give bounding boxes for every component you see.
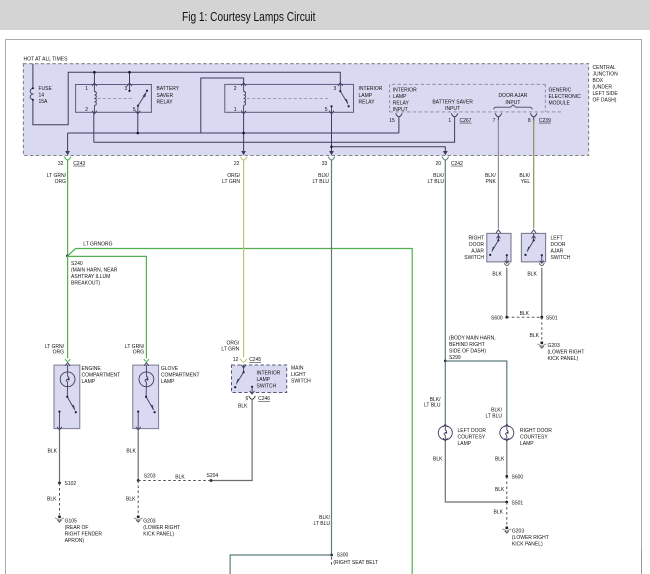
GEM pin 1 / C267	[451, 113, 458, 116]
svg-text:APRON): APRON)	[65, 538, 85, 544]
wire drop to battery saver relay pin 3	[129, 72, 131, 84]
svg-text:LT BLU: LT BLU	[313, 179, 330, 185]
svg-text:KICK PANEL): KICK PANEL)	[548, 356, 579, 362]
interior lamp relay pin 3 stub	[338, 83, 343, 86]
svg-text:C267: C267	[460, 118, 472, 124]
wire interior relay pin 5 to connector 33	[331, 112, 333, 151]
svg-text:ORG: ORG	[55, 179, 67, 185]
central junction box (dashed outline)	[23, 64, 588, 156]
svg-text:BREAKOUT): BREAKOUT)	[71, 281, 101, 287]
battery saver relay box	[76, 85, 152, 113]
svg-text:CENTRAL: CENTRAL	[593, 65, 617, 71]
svg-text:BLK: BLK	[495, 456, 505, 462]
splice S203	[137, 479, 140, 482]
svg-text:LEFT: LEFT	[551, 236, 563, 242]
wire line1 drop to connector 32	[67, 133, 69, 151]
wire BLK/YEL GEM pin8 to left door ajar switch	[533, 120, 535, 229]
svg-text:RELAY: RELAY	[359, 100, 376, 106]
interior lamp relay coil pin2-pin1	[241, 83, 246, 86]
svg-text:BLK: BLK	[175, 474, 185, 480]
svg-text:SWITCH: SWITCH	[291, 379, 311, 385]
svg-text:COMPARTMENT: COMPARTMENT	[161, 372, 200, 378]
connector 32 / C243	[65, 151, 70, 155]
wire S299 to left courtesy lamp	[444, 361, 446, 425]
svg-text:ASHTRAY ILLUM: ASHTRAY ILLUM	[71, 274, 110, 280]
wire S501 to G203 (dashed)	[541, 317, 543, 340]
svg-text:ORG: ORG	[133, 350, 145, 356]
svg-text:OF DASH): OF DASH)	[593, 98, 617, 104]
ground G105	[58, 516, 61, 519]
svg-text:(BODY MAIN HARN,: (BODY MAIN HARN,	[449, 335, 496, 341]
svg-text:GENERIC: GENERIC	[549, 87, 572, 93]
svg-text:LT GRN: LT GRN	[222, 179, 240, 185]
svg-text:S300: S300	[337, 553, 349, 559]
svg-text:LEFT DOOR: LEFT DOOR	[458, 428, 487, 434]
wire S300 stub (dashed)	[331, 557, 333, 566]
fuse 14 15A wire loop	[32, 64, 34, 88]
junction at fuse bus pin1 drop	[93, 71, 96, 74]
wire BLK/LT BLU conn33 to S300	[331, 160, 333, 555]
svg-text:LAMP: LAMP	[161, 379, 175, 385]
svg-text:KICK PANEL): KICK PANEL)	[143, 531, 174, 537]
svg-text:JUNCTION: JUNCTION	[593, 72, 619, 78]
wire S102 to G105 (dashed)	[59, 483, 61, 515]
title bar	[0, 0, 650, 30]
svg-text:BLK: BLK	[433, 456, 443, 462]
svg-text:G105: G105	[65, 518, 77, 524]
svg-text:LT GRNORG: LT GRNORG	[83, 241, 112, 247]
splice S600 (courtesy)	[505, 475, 508, 478]
svg-text:BATTERY: BATTERY	[157, 86, 180, 92]
ground G203 (courtesy)	[506, 527, 509, 530]
svg-text:LEFT SIDE: LEFT SIDE	[593, 91, 619, 97]
svg-text:SIDE OF DASH): SIDE OF DASH)	[449, 348, 486, 354]
svg-text:YEL: YEL	[521, 179, 531, 185]
svg-text:LT BLU: LT BLU	[314, 521, 331, 527]
svg-text:BLK: BLK	[48, 448, 58, 454]
junction at fuse bus pin3 drop	[128, 71, 131, 74]
svg-text:GLOVE: GLOVE	[161, 366, 179, 372]
svg-text:RELAY: RELAY	[393, 100, 410, 106]
svg-text:DOOR: DOOR	[551, 242, 566, 248]
svg-text:15: 15	[389, 118, 395, 124]
svg-text:INPUT: INPUT	[445, 106, 460, 112]
wire S600 to S501 (dashed)	[507, 316, 542, 318]
svg-text:BLK: BLK	[492, 271, 502, 277]
connector C245	[240, 359, 247, 362]
svg-text:SAVER: SAVER	[157, 93, 174, 99]
svg-text:(LOWER RIGHT: (LOWER RIGHT	[548, 350, 585, 356]
wire BLK main light switch to S204	[211, 400, 252, 481]
svg-text:2: 2	[85, 107, 88, 113]
wire S240 to glove lamp	[68, 256, 147, 358]
GEM dashed outline right	[544, 84, 546, 112]
interior lamp relay switch arm pin3-pin5	[340, 91, 347, 103]
wire BLK/PNK GEM pin7 to right door ajar switch	[497, 120, 499, 229]
lamp left door courtesy	[443, 424, 447, 427]
svg-text:HOT AT ALL TIMES: HOT AT ALL TIMES	[24, 57, 69, 63]
svg-text:12: 12	[233, 357, 239, 363]
svg-text:COMPARTMENT: COMPARTMENT	[82, 372, 121, 378]
svg-text:INTERIOR: INTERIOR	[257, 370, 281, 376]
svg-text:G203: G203	[143, 518, 155, 524]
wire interior relay pin 1 to connector 22	[243, 112, 245, 151]
interior lamp relay mechanical link (dashed)	[247, 97, 330, 99]
svg-text:3: 3	[334, 86, 337, 92]
switch left door ajar	[521, 233, 545, 262]
svg-text:1: 1	[85, 86, 88, 92]
splice S600 (door ajar)	[505, 316, 508, 319]
svg-text:3: 3	[125, 86, 128, 92]
svg-text:S501: S501	[546, 315, 558, 321]
svg-text:BLK: BLK	[495, 487, 505, 493]
splice S204	[210, 479, 213, 482]
svg-text:LAMP: LAMP	[82, 379, 96, 385]
splice S240	[66, 255, 69, 258]
svg-text:BEHIND RIGHT: BEHIND RIGHT	[449, 342, 485, 348]
lamp right door courtesy	[505, 424, 509, 427]
ground G203 (door ajar)	[541, 342, 544, 345]
svg-text:RIGHT: RIGHT	[468, 236, 484, 242]
svg-text:S501: S501	[512, 500, 524, 506]
svg-text:SWITCH: SWITCH	[551, 255, 571, 261]
svg-text:LAMP: LAMP	[520, 441, 534, 447]
svg-text:LT GRN: LT GRN	[221, 346, 239, 352]
svg-text:32: 32	[58, 161, 64, 167]
wire S300 west branch	[230, 555, 331, 574]
svg-text:(REAR OF: (REAR OF	[65, 525, 89, 531]
svg-text:AJAR: AJAR	[551, 249, 564, 255]
GEM pin 7	[495, 113, 502, 116]
net bus lineC to connector 20	[332, 147, 446, 152]
connector C246	[249, 396, 256, 399]
svg-text:7: 7	[493, 118, 496, 124]
svg-text:G203: G203	[512, 529, 524, 535]
svg-text:BATTERY SAVER: BATTERY SAVER	[432, 99, 473, 105]
ground G203 (left)	[137, 516, 140, 519]
svg-text:G203: G203	[548, 343, 560, 349]
svg-text:COURTESY: COURTESY	[520, 434, 548, 440]
svg-text:1: 1	[448, 118, 451, 124]
net bus line1 (batt saver pin5 output)	[68, 132, 399, 134]
svg-text:C243: C243	[73, 161, 85, 167]
svg-text:LT BLU: LT BLU	[424, 403, 441, 409]
battery saver relay mechanical link (dashed)	[98, 97, 135, 99]
wire LT GRN/ORG conn32 to S240	[67, 160, 69, 256]
svg-text:C246: C246	[258, 396, 270, 402]
svg-text:LAMP: LAMP	[458, 441, 472, 447]
svg-text:(LOWER RIGHT: (LOWER RIGHT	[512, 535, 549, 541]
svg-text:BLK: BLK	[126, 448, 136, 454]
splice S300	[330, 554, 333, 557]
wire battery saver pin 2 down	[93, 112, 95, 142]
junction pin5/line1	[137, 132, 140, 135]
svg-text:BOX: BOX	[593, 78, 604, 84]
svg-text:BLK: BLK	[494, 510, 504, 516]
GEM dashed outline left	[389, 85, 391, 112]
svg-text:S203: S203	[144, 474, 156, 480]
wire BLK glove lamp to S203	[137, 430, 139, 481]
svg-text:FUSE: FUSE	[39, 86, 53, 92]
connector 33	[329, 151, 334, 155]
svg-text:INTERIOR: INTERIOR	[359, 86, 383, 92]
connector 20 / C242	[443, 151, 448, 155]
svg-text:MAIN: MAIN	[291, 366, 304, 372]
svg-text:LT BLU: LT BLU	[486, 413, 503, 419]
svg-text:14: 14	[39, 93, 45, 99]
wire S299 to right courtesy lamp	[445, 361, 507, 425]
wire BLK right door switch to S600	[506, 268, 508, 318]
svg-text:S600: S600	[491, 315, 503, 321]
scrollbar edge	[641, 548, 643, 574]
splice S102	[58, 482, 61, 485]
svg-text:LAMP: LAMP	[257, 377, 271, 383]
svg-text:5: 5	[325, 107, 328, 113]
svg-text:BLK: BLK	[238, 403, 248, 409]
svg-text:ENGINE: ENGINE	[82, 366, 102, 372]
lamp engine compartment	[54, 365, 80, 429]
svg-text:RELAY: RELAY	[157, 100, 174, 106]
door ajar input bracket	[494, 105, 533, 110]
svg-text:S204: S204	[207, 473, 219, 479]
svg-text:S600: S600	[512, 475, 524, 481]
svg-text:S102: S102	[65, 481, 77, 487]
svg-text:MODULE: MODULE	[549, 100, 571, 106]
wire line1 to GEM pin 15	[398, 117, 400, 133]
wire ORG/LT GRN conn22 to main light switch	[243, 160, 245, 357]
svg-text:COURTESY: COURTESY	[458, 434, 486, 440]
battery saver relay pin 5 stub	[137, 106, 139, 113]
splice S299	[444, 360, 447, 363]
svg-text:SWITCH: SWITCH	[257, 383, 277, 389]
svg-text:LAMP: LAMP	[393, 94, 407, 100]
svg-text:C242: C242	[451, 161, 463, 167]
svg-text:LAMP: LAMP	[359, 93, 373, 99]
svg-text:AJAR: AJAR	[471, 249, 484, 255]
splice S501 (door ajar)	[540, 316, 543, 319]
svg-text:BLK: BLK	[47, 497, 57, 503]
wire S600 to S501 (courtesy, dashed)	[506, 476, 508, 502]
svg-text:15A: 15A	[39, 99, 49, 105]
wire LT GRNORG jog to long feed	[68, 249, 413, 574]
svg-text:SWITCH: SWITCH	[464, 255, 484, 261]
wire pin2-feed riser and feed to interior relay pin 2	[201, 78, 244, 133]
svg-text:22: 22	[234, 161, 240, 167]
switch right door ajar	[487, 233, 511, 262]
svg-text:1: 1	[234, 107, 237, 113]
wire BLK engine lamp to S102	[59, 430, 61, 483]
GEM pin 8 / C239	[530, 113, 537, 116]
junction pin5/lineC	[330, 146, 333, 149]
svg-text:KICK PANEL): KICK PANEL)	[512, 542, 543, 548]
svg-text:C245: C245	[249, 357, 261, 363]
svg-text:BLK: BLK	[530, 333, 540, 339]
main light switch box (dashed)	[232, 365, 287, 393]
interior lamp relay pin 5 stub	[331, 106, 333, 112]
svg-text:S240: S240	[71, 261, 83, 267]
svg-text:DOOR AJAR: DOOR AJAR	[498, 93, 527, 99]
svg-text:DOOR: DOOR	[469, 242, 484, 248]
svg-text:BLK: BLK	[126, 497, 136, 503]
svg-text:2: 2	[234, 86, 237, 92]
lamp glove compartment	[133, 365, 159, 429]
wire S203 to S204 (dashed)	[138, 480, 211, 482]
wire BLK/LT BLU conn20 to S299	[444, 160, 446, 361]
svg-text:(MAIN HARN, NEAR: (MAIN HARN, NEAR	[71, 268, 118, 274]
svg-text:8: 8	[528, 118, 531, 124]
GEM pin 15	[396, 113, 403, 116]
svg-text:BLK: BLK	[527, 271, 537, 277]
battery saver relay switch arm pin5-pin3	[137, 105, 139, 107]
battery saver relay coil pin1-pin2	[92, 83, 97, 86]
svg-text:RIGHT DOOR: RIGHT DOOR	[520, 428, 552, 434]
svg-text:LIGHT: LIGHT	[291, 372, 306, 378]
svg-text:(UNDER: (UNDER	[593, 85, 613, 91]
GEM dashed outline bottom	[390, 111, 561, 113]
wire battery saver pin 5 to line1	[137, 112, 139, 133]
wire drop to battery saver relay pin 1	[93, 72, 95, 84]
svg-text:S299: S299	[449, 355, 461, 361]
svg-text:(LOWER RIGHT: (LOWER RIGHT	[143, 525, 180, 531]
svg-text:C239: C239	[539, 118, 551, 124]
junction pin1/line1	[242, 132, 245, 135]
svg-text:5: 5	[133, 107, 136, 113]
net bus line2 (batt saver pin2 to GEM C267)	[94, 117, 455, 142]
svg-text:INPUT: INPUT	[393, 107, 408, 113]
splice S501 (courtesy)	[505, 501, 508, 504]
wire BLK left courtesy lamp to S501	[445, 441, 507, 502]
svg-text:INTERIOR: INTERIOR	[393, 87, 417, 93]
svg-text:Fig 1: Courtesy Lamps Circuit: Fig 1: Courtesy Lamps Circuit	[182, 10, 316, 24]
svg-text:RIGHT FENDER: RIGHT FENDER	[65, 531, 103, 537]
wire BLK right courtesy lamp to S600	[506, 441, 508, 476]
connector 22	[241, 151, 246, 155]
svg-text:LT BLU: LT BLU	[428, 179, 445, 185]
svg-text:(RIGHT SEAT BELT: (RIGHT SEAT BELT	[333, 560, 378, 566]
svg-text:6: 6	[246, 396, 249, 402]
wire BLK left door switch to S501	[541, 268, 543, 318]
GEM dashed outline top	[392, 83, 546, 85]
svg-text:BLK: BLK	[520, 311, 530, 317]
battery saver relay pin 3 stub	[127, 83, 132, 86]
svg-text:20: 20	[436, 161, 442, 167]
svg-text:ORG: ORG	[53, 350, 65, 356]
svg-text:33: 33	[322, 161, 328, 167]
interior lamp relay box	[225, 84, 354, 112]
wire S501 to G203 (courtesy, dashed)	[506, 502, 508, 526]
main light switch contacts	[241, 365, 246, 368]
wire S240 to engine lamp	[67, 256, 69, 358]
fuse 14 element	[30, 88, 33, 100]
wire S203 to G203 (dashed)	[137, 481, 139, 515]
svg-text:PNK: PNK	[486, 179, 497, 185]
svg-text:ELECTRONIC: ELECTRONIC	[549, 94, 582, 100]
